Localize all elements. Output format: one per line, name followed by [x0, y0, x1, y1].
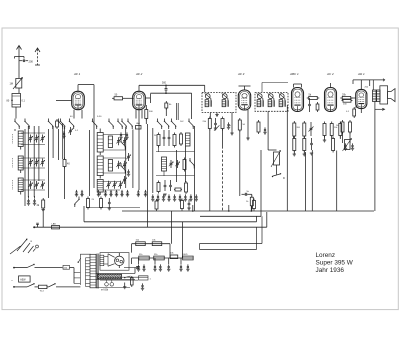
svg-text:Jahr 1936: Jahr 1936 — [316, 267, 345, 274]
svg-text:AEW: AEW — [20, 279, 26, 282]
svg-text:ABC 1: ABC 1 — [289, 72, 299, 76]
svg-text:D: D — [283, 176, 285, 180]
svg-text:3-30: 3-30 — [97, 116, 102, 118]
svg-text:200: 200 — [29, 59, 34, 63]
svg-text:AC 2: AC 2 — [326, 72, 334, 76]
svg-text:AF 3: AF 3 — [237, 72, 245, 76]
svg-text:1M: 1M — [10, 83, 13, 86]
svg-text:LAD: LAD — [136, 122, 140, 125]
svg-text:Lorenz: Lorenz — [316, 252, 336, 259]
svg-text:240/5: 240/5 — [183, 254, 189, 256]
svg-text:AF 1: AF 1 — [73, 72, 81, 76]
svg-text:Super 395 W: Super 395 W — [316, 260, 354, 267]
svg-text:AF 2: AF 2 — [135, 72, 143, 76]
svg-text:LAB: LAB — [52, 223, 57, 226]
svg-text:500: 500 — [162, 82, 167, 85]
svg-text:erf 83k: erf 83k — [101, 289, 109, 292]
svg-text:~: ~ — [11, 279, 13, 283]
svg-text:AD 1: AD 1 — [357, 72, 365, 76]
